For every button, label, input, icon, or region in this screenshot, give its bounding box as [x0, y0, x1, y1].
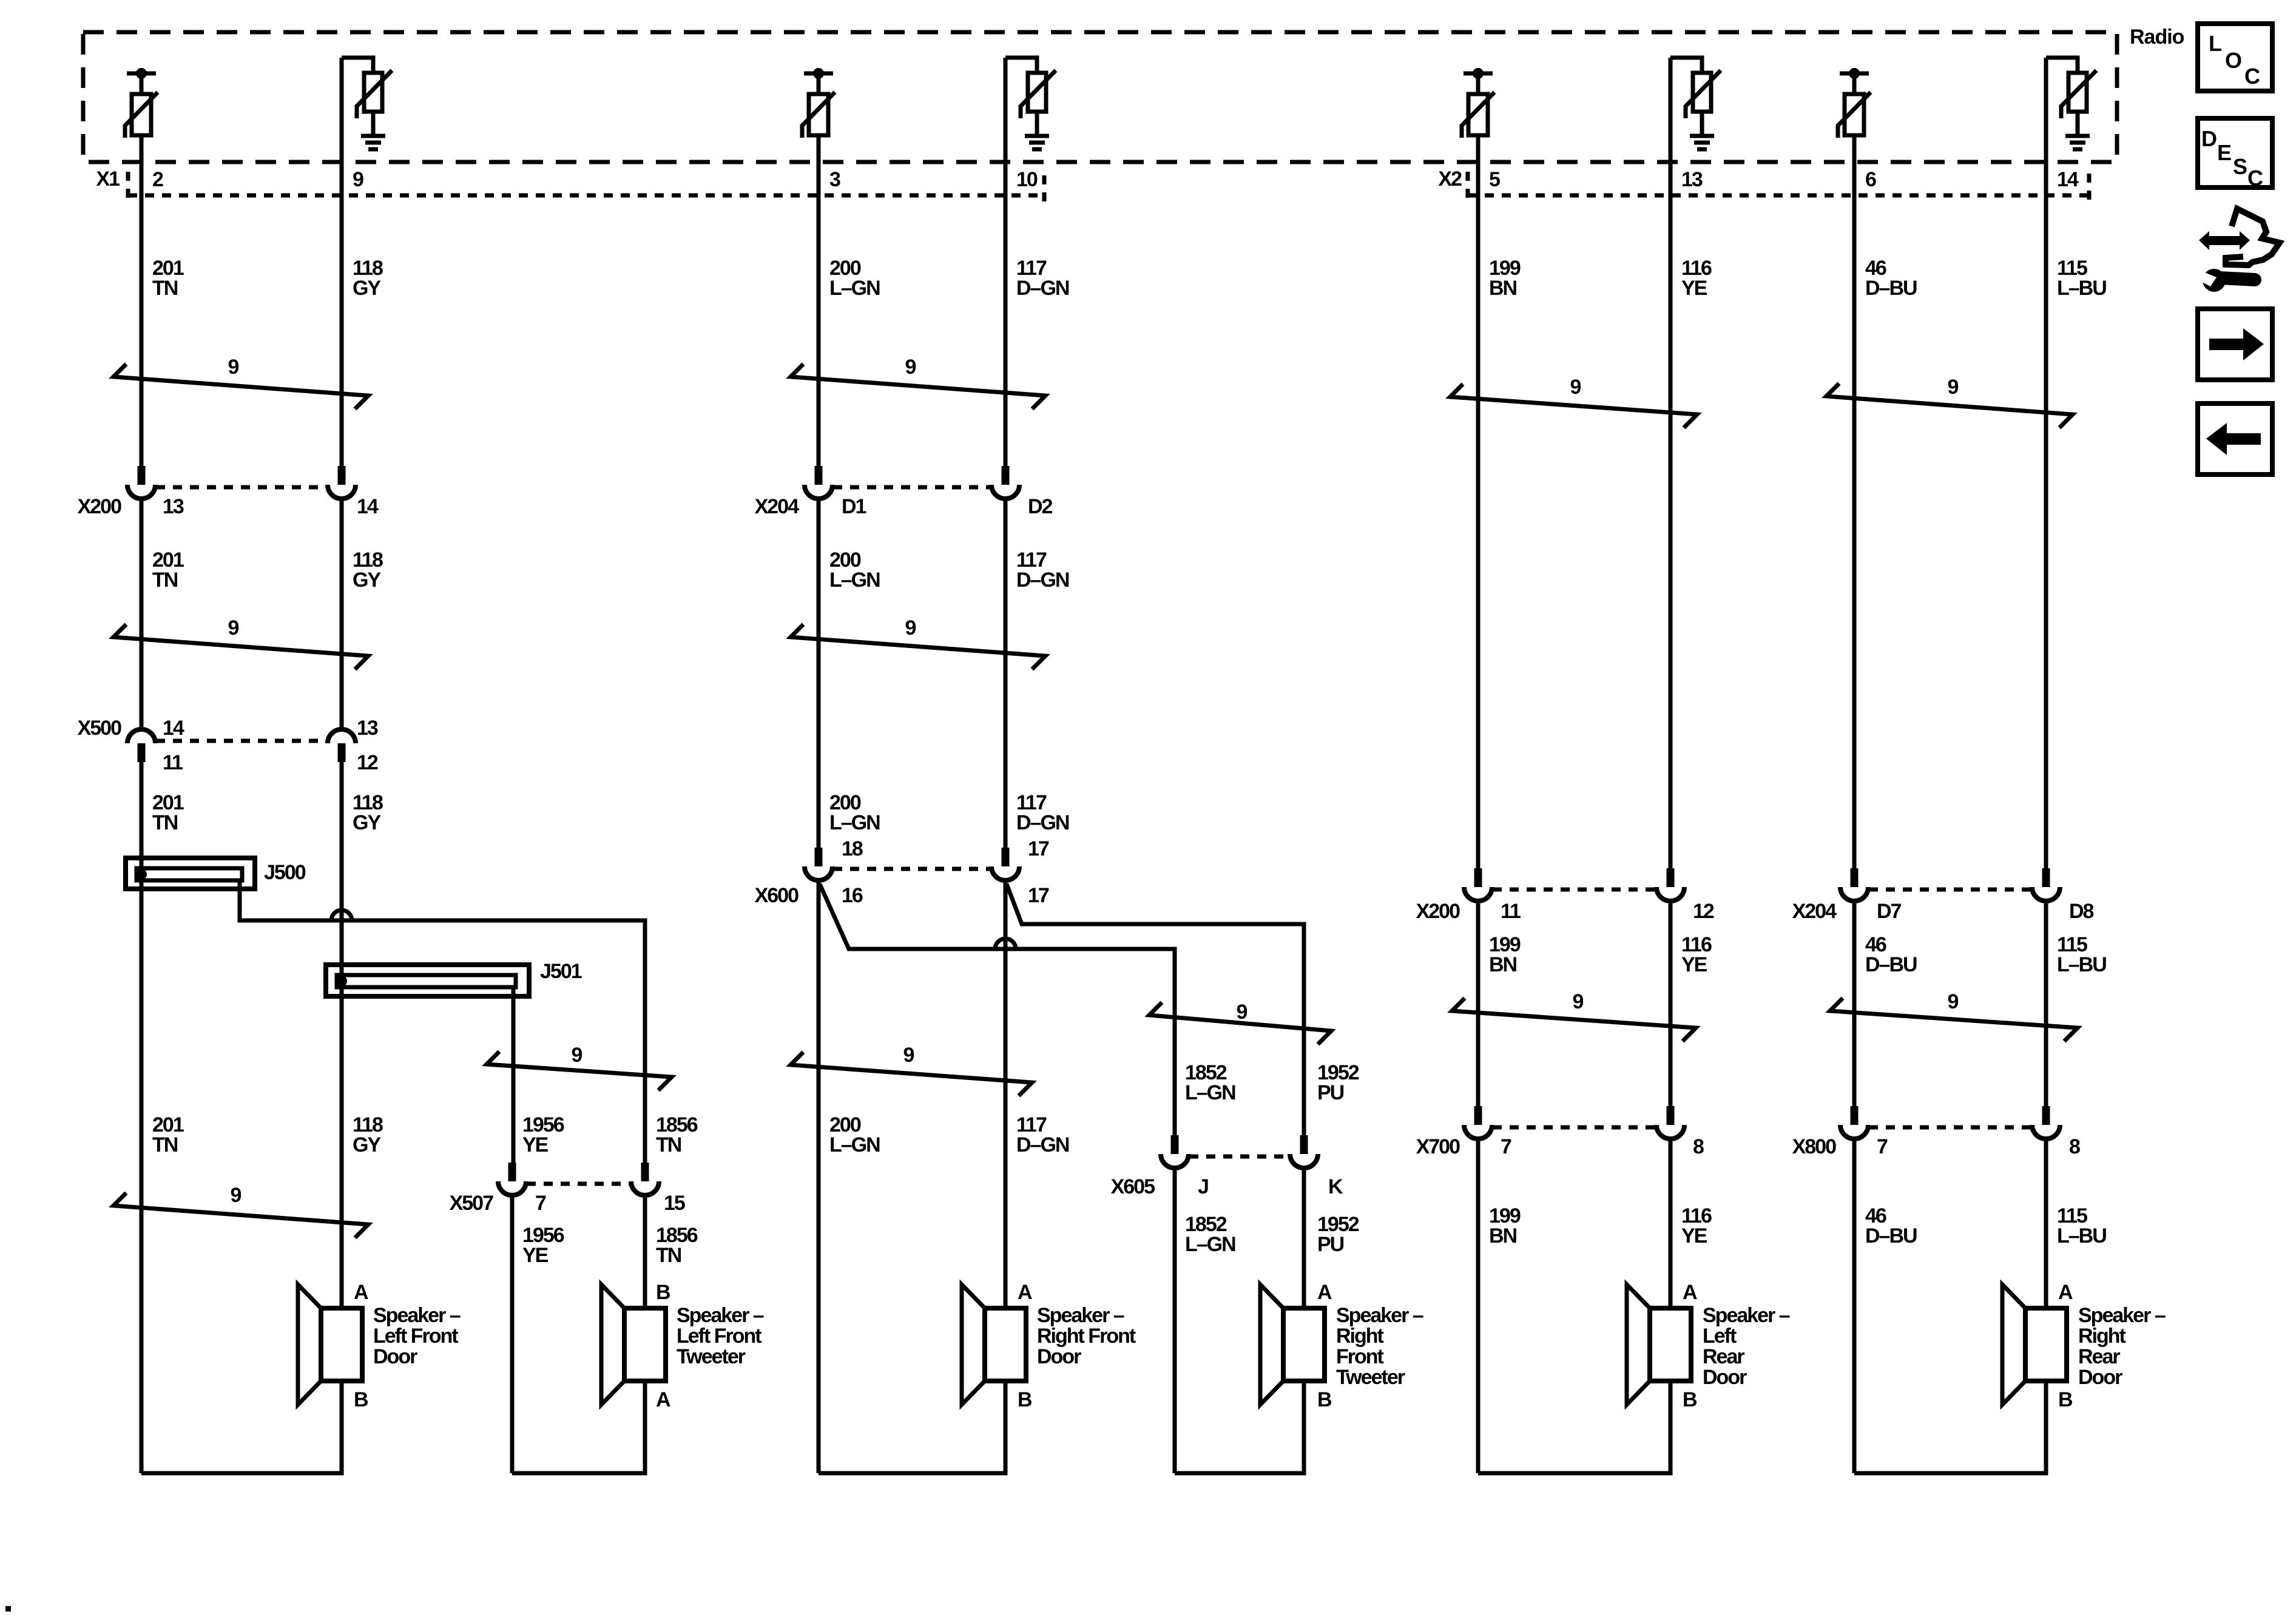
svg-text:L–GN: L–GN [1185, 1233, 1235, 1256]
svg-text:9: 9 [1570, 376, 1581, 399]
connector X204 pin D2 [991, 466, 1019, 499]
svg-text:Tweeter: Tweeter [1336, 1366, 1405, 1389]
svg-text:7: 7 [1501, 1135, 1511, 1158]
svg-text:L: L [2209, 31, 2222, 56]
wire 46 D-BU lower [1852, 1141, 1857, 1473]
svg-text:TN: TN [152, 811, 178, 834]
radio output symbol pin 5 [1462, 68, 1494, 138]
connector X800 dashed link [1869, 1126, 2031, 1130]
splice J500 output wire to left front tweeter [240, 880, 645, 1163]
svg-text:5: 5 [1489, 168, 1500, 191]
svg-text:18: 18 [842, 837, 863, 860]
svg-text:17: 17 [1028, 837, 1049, 860]
wire 1856 TN below X507 [643, 1198, 647, 1308]
svg-text:13: 13 [163, 495, 184, 518]
harness crossing left tweeter [487, 1052, 672, 1090]
harness crossing pair3 row2 [1452, 998, 1696, 1041]
svg-text:TN: TN [152, 277, 178, 300]
svg-text:Right: Right [2078, 1325, 2126, 1348]
svg-text:Speaker –: Speaker – [1037, 1304, 1124, 1327]
svg-text:K: K [1328, 1175, 1343, 1198]
connector X200 pin 14 [328, 466, 356, 499]
connector X700 pin 7 [1464, 1106, 1492, 1139]
connector X204 rear pin D7 [1840, 868, 1868, 901]
radio output symbol pin 2 [125, 68, 158, 138]
svg-text:GY: GY [353, 277, 381, 300]
connector X500 dashed link [156, 739, 327, 743]
svg-text:C: C [2247, 166, 2263, 191]
svg-text:14: 14 [2057, 168, 2079, 191]
svg-text:Door: Door [1037, 1345, 1081, 1368]
connector X200 rear pin 11 [1464, 868, 1492, 901]
svg-text:X204: X204 [755, 495, 799, 518]
connector X600 pin 18/16 [805, 848, 832, 880]
connector X605 pin K [1290, 1135, 1318, 1168]
wire 201 TN mid [140, 501, 144, 727]
wire 199 BN lower [1476, 1141, 1481, 1473]
svg-text:Left Front: Left Front [373, 1325, 458, 1348]
svg-text:L–GN: L–GN [829, 569, 880, 592]
speaker right front door return loop [819, 1381, 1005, 1473]
svg-text:A: A [2058, 1281, 2073, 1304]
wire 200 L-GN below X600 [817, 883, 821, 1473]
harness crossing right tweeter [1149, 1002, 1331, 1044]
wire 1852 L-GN below X605 [1173, 1170, 1177, 1473]
svg-text:7: 7 [535, 1192, 546, 1215]
svg-text:A: A [1317, 1281, 1332, 1304]
svg-text:Speaker –: Speaker – [1703, 1304, 1790, 1327]
wire 201 TN below X500 [140, 762, 144, 1473]
svg-text:15: 15 [664, 1192, 685, 1215]
wire 115 L-BU lower [2044, 1141, 2048, 1308]
svg-text:X2: X2 [1438, 167, 1462, 191]
svg-text:YE: YE [1681, 953, 1707, 976]
svg-text:Rear: Rear [1703, 1345, 1744, 1368]
svg-text:D: D [2201, 126, 2217, 151]
connector X200 rear pin 12 [1656, 868, 1684, 901]
svg-text:X700: X700 [1416, 1135, 1460, 1158]
svg-text:D2: D2 [1028, 495, 1053, 518]
svg-text:X800: X800 [1792, 1135, 1836, 1158]
harness crossing pair1 row2 [113, 624, 368, 669]
left arrow icon [2198, 403, 2272, 474]
splice J501 [326, 965, 529, 996]
svg-text:J500: J500 [264, 861, 306, 884]
svg-text:TN: TN [152, 569, 178, 592]
connector X200 dashed link [156, 485, 327, 490]
connector X507 pin 7 [498, 1163, 526, 1195]
svg-text:B: B [1018, 1388, 1032, 1411]
svg-text:B: B [1317, 1388, 1332, 1411]
connector X1 left bracket [126, 172, 130, 200]
DESC icon [2198, 118, 2272, 191]
svg-text:TN: TN [152, 1133, 178, 1156]
speaker right front door [962, 1284, 1026, 1405]
svg-text:9: 9 [231, 1184, 241, 1207]
connector X700 pin 8 [1656, 1106, 1684, 1139]
connector X2 left bracket [1466, 172, 1470, 200]
connector X800 pin 7 [1840, 1106, 1868, 1139]
connector X204 rear pin D8 [2032, 868, 2060, 901]
speaker left rear door return loop [1478, 1381, 1670, 1473]
wire 1952 PU below X605 [1302, 1170, 1306, 1308]
harness crossing pair1 row1 [113, 364, 368, 409]
svg-text:GY: GY [353, 569, 381, 592]
speaker left front door [298, 1284, 362, 1405]
wire 200 L-GN mid [817, 501, 821, 848]
svg-text:D7: D7 [1877, 900, 1902, 923]
Radio dashed box [83, 32, 2117, 162]
svg-text:YE: YE [522, 1133, 549, 1156]
radio output symbol pin 9 (to ground) [342, 58, 392, 149]
svg-text:B: B [656, 1281, 670, 1304]
svg-text:D–BU: D–BU [1865, 953, 1917, 976]
speaker left rear door [1627, 1284, 1691, 1405]
svg-text:D1: D1 [842, 495, 866, 518]
radio output symbol pin 3 [802, 68, 835, 138]
splice J500 [126, 858, 255, 889]
wire 46 D-BU from radio pin 6 [1852, 135, 1857, 868]
svg-text:9: 9 [905, 356, 916, 379]
connector X800 pin 8 [2032, 1106, 2060, 1139]
svg-text:X1: X1 [96, 167, 120, 191]
svg-text:D–GN: D–GN [1016, 277, 1069, 300]
harness crossing pair3 row1 [1450, 384, 1697, 428]
svg-text:X500: X500 [78, 717, 121, 740]
svg-text:J501: J501 [540, 960, 582, 983]
svg-text:C: C [2244, 64, 2260, 89]
svg-text:Left: Left [1703, 1325, 1737, 1348]
svg-text:D8: D8 [2069, 900, 2094, 923]
wire 115 L-BU from radio pin 14 [2044, 58, 2048, 868]
svg-text:YE: YE [1681, 1224, 1707, 1247]
svg-text:BN: BN [1489, 953, 1517, 976]
wire 1956 YE below X507 [510, 1198, 515, 1473]
connector X507 pin 15 [631, 1163, 659, 1195]
svg-text:Rear: Rear [2078, 1345, 2120, 1368]
svg-text:Speaker –: Speaker – [373, 1304, 461, 1327]
splice J501 output wire to left front tweeter [512, 987, 516, 1163]
svg-text:A: A [1683, 1281, 1697, 1304]
harness crossing pair2 row2 [791, 624, 1045, 669]
wire 200 L-GN from radio pin 3 [817, 135, 821, 466]
wiring navigation icon (double arrow, connector outline, wrench) [2194, 209, 2280, 292]
connector X600 pin 17/17 [991, 848, 1019, 880]
svg-text:L–GN: L–GN [1185, 1081, 1235, 1104]
radio output symbol pin 14 (to ground) [2046, 58, 2096, 149]
speaker right front tweeter [1260, 1284, 1325, 1405]
speaker left front tweeter [601, 1284, 666, 1405]
speaker left front tweeter return loop [512, 1381, 645, 1473]
right arrow icon [2198, 309, 2272, 380]
svg-text:11: 11 [1501, 900, 1521, 923]
wire 199 BN mid [1476, 903, 1481, 1106]
connector X200 pin 13 [127, 466, 155, 499]
svg-text:Speaker –: Speaker – [1336, 1304, 1423, 1327]
connector X204 dashed link [833, 485, 991, 490]
svg-text:X605: X605 [1111, 1175, 1155, 1198]
harness crossing pair1 row3 [113, 1193, 368, 1238]
speaker left front door return loop [141, 1381, 342, 1473]
wire 117 D-GN from radio pin 10 [1004, 58, 1008, 466]
wire 199 BN from radio pin 5 [1476, 135, 1481, 868]
svg-text:L–GN: L–GN [829, 277, 880, 300]
LOC icon [2198, 24, 2272, 91]
svg-text:17: 17 [1028, 884, 1049, 907]
svg-text:J: J [1198, 1175, 1208, 1198]
svg-text:Speaker –: Speaker – [2078, 1304, 2166, 1327]
svg-text:YE: YE [522, 1244, 549, 1267]
connector X200 rear dashed link [1493, 888, 1656, 892]
radio output symbol pin 10 (to ground) [1005, 58, 1056, 149]
svg-text:9: 9 [228, 616, 239, 640]
svg-text:PU: PU [1317, 1081, 1344, 1104]
svg-text:A: A [656, 1388, 670, 1411]
svg-text:9: 9 [228, 356, 239, 379]
wire 201 TN from radio pin 2 [140, 135, 144, 466]
svg-text:2: 2 [152, 168, 163, 191]
svg-text:Tweeter: Tweeter [677, 1345, 746, 1368]
svg-text:Door: Door [2078, 1366, 2122, 1389]
svg-text:X204: X204 [1792, 900, 1837, 923]
connector X204 rear dashed link [1869, 888, 2031, 892]
svg-text:13: 13 [1681, 168, 1703, 191]
connector X2 right bracket [2087, 174, 2092, 201]
harness crossing pair2 row1 [791, 364, 1045, 409]
svg-text:14: 14 [357, 495, 379, 518]
branch wire 1852 L-GN from X600 pin 16 [820, 884, 1175, 1135]
svg-text:13: 13 [357, 717, 378, 740]
wire 116 YE mid [1669, 903, 1673, 1106]
svg-text:D–BU: D–BU [1865, 277, 1917, 300]
wire 117 D-GN mid [1004, 501, 1008, 848]
svg-text:D–GN: D–GN [1016, 811, 1069, 834]
wire 115 L-BU mid [2044, 903, 2048, 1106]
svg-text:B: B [354, 1388, 368, 1411]
harness crossing pair2 row3 [791, 1052, 1032, 1096]
connector X500 pin 13/12 [328, 729, 356, 762]
wire 117 D-GN below X600 [1004, 883, 1008, 1308]
radio output symbol pin 6 [1838, 68, 1871, 138]
svg-text:PU: PU [1317, 1233, 1344, 1256]
connector X605 dashed link [1189, 1155, 1289, 1159]
svg-text:BN: BN [1489, 277, 1517, 300]
svg-text:O: O [2225, 48, 2242, 73]
svg-text:L–BU: L–BU [2057, 953, 2106, 976]
wire 118 GY mid [340, 501, 344, 727]
connector X1 dotted edge [128, 194, 1044, 198]
svg-text:Door: Door [1703, 1366, 1747, 1389]
connector X600 dashed link [833, 867, 991, 871]
svg-text:S: S [2233, 154, 2247, 179]
svg-text:9: 9 [1573, 990, 1584, 1013]
svg-text:D–GN: D–GN [1016, 1133, 1069, 1156]
svg-text:7: 7 [1877, 1135, 1888, 1158]
wire 46 D-BU mid [1852, 903, 1857, 1106]
connector X204 pin D1 [805, 466, 832, 499]
svg-text:B: B [2058, 1388, 2073, 1411]
svg-text:TN: TN [656, 1133, 681, 1156]
connector X2 dotted edge [1468, 194, 2089, 198]
svg-text:9: 9 [1948, 990, 1959, 1013]
svg-text:9: 9 [905, 616, 916, 640]
wire 116 YE lower [1669, 1141, 1673, 1308]
svg-text:16: 16 [842, 884, 863, 907]
svg-text:YE: YE [1681, 277, 1707, 300]
svg-text:L–GN: L–GN [829, 1133, 880, 1156]
speaker right front tweeter return loop [1175, 1381, 1304, 1473]
svg-text:Door: Door [373, 1345, 417, 1368]
svg-text:L–BU: L–BU [2057, 1224, 2106, 1247]
speaker right rear door return loop [1854, 1381, 2046, 1473]
svg-text:10: 10 [1016, 168, 1038, 191]
svg-text:Right Front: Right Front [1037, 1325, 1136, 1348]
page corner dot [5, 1606, 11, 1612]
svg-text:B: B [1683, 1388, 1697, 1411]
svg-text:A: A [1018, 1281, 1032, 1304]
svg-text:X507: X507 [450, 1192, 493, 1215]
svg-text:L–GN: L–GN [829, 811, 880, 834]
svg-text:Speaker –: Speaker – [677, 1304, 764, 1327]
svg-text:D–BU: D–BU [1865, 1224, 1917, 1247]
connector X1 right bracket [1042, 175, 1047, 204]
svg-text:GY: GY [353, 1133, 381, 1156]
svg-text:8: 8 [1693, 1135, 1704, 1158]
svg-text:9: 9 [353, 168, 363, 191]
svg-text:9: 9 [903, 1044, 914, 1067]
svg-text:E: E [2217, 140, 2232, 165]
svg-text:Left Front: Left Front [677, 1325, 761, 1348]
svg-text:11: 11 [163, 751, 183, 774]
svg-text:8: 8 [2069, 1135, 2080, 1158]
harness crossing pair4 row1 [1826, 383, 2073, 428]
wire 116 YE from radio pin 13 [1669, 58, 1673, 868]
svg-text:9: 9 [1237, 1001, 1248, 1024]
svg-text:A: A [354, 1281, 368, 1304]
svg-text:Radio: Radio [2130, 25, 2184, 49]
harness crossing pair4 row2 [1830, 998, 2078, 1041]
svg-text:D–GN: D–GN [1016, 569, 1069, 592]
svg-text:X600: X600 [755, 884, 799, 907]
radio output symbol pin 13 (to ground) [1670, 58, 1721, 149]
svg-text:3: 3 [829, 168, 840, 191]
svg-text:12: 12 [357, 751, 378, 774]
connector X605 pin J [1161, 1135, 1189, 1168]
svg-text:GY: GY [353, 811, 381, 834]
connector X500 pin 14/11 [127, 729, 155, 762]
connector X507 dashed link [527, 1182, 630, 1186]
svg-text:9: 9 [572, 1044, 582, 1067]
svg-text:6: 6 [1865, 168, 1876, 191]
svg-text:L–BU: L–BU [2057, 277, 2106, 300]
svg-text:14: 14 [163, 717, 184, 740]
svg-text:TN: TN [656, 1244, 681, 1267]
svg-text:9: 9 [1948, 376, 1959, 399]
svg-text:12: 12 [1693, 900, 1714, 923]
svg-text:X200: X200 [1416, 900, 1460, 923]
speaker right rear door [2002, 1284, 2067, 1405]
svg-text:BN: BN [1489, 1224, 1517, 1247]
wire 118 GY below X500 [340, 762, 344, 1308]
branch wire 1952 PU from X600 pin 17 [1007, 884, 1304, 1135]
svg-text:X200: X200 [78, 495, 121, 518]
svg-text:Front: Front [1336, 1345, 1384, 1368]
connector X700 dashed link [1493, 1126, 1656, 1130]
svg-text:Right: Right [1336, 1325, 1384, 1348]
wire 118 GY from radio pin 9 [340, 58, 344, 466]
